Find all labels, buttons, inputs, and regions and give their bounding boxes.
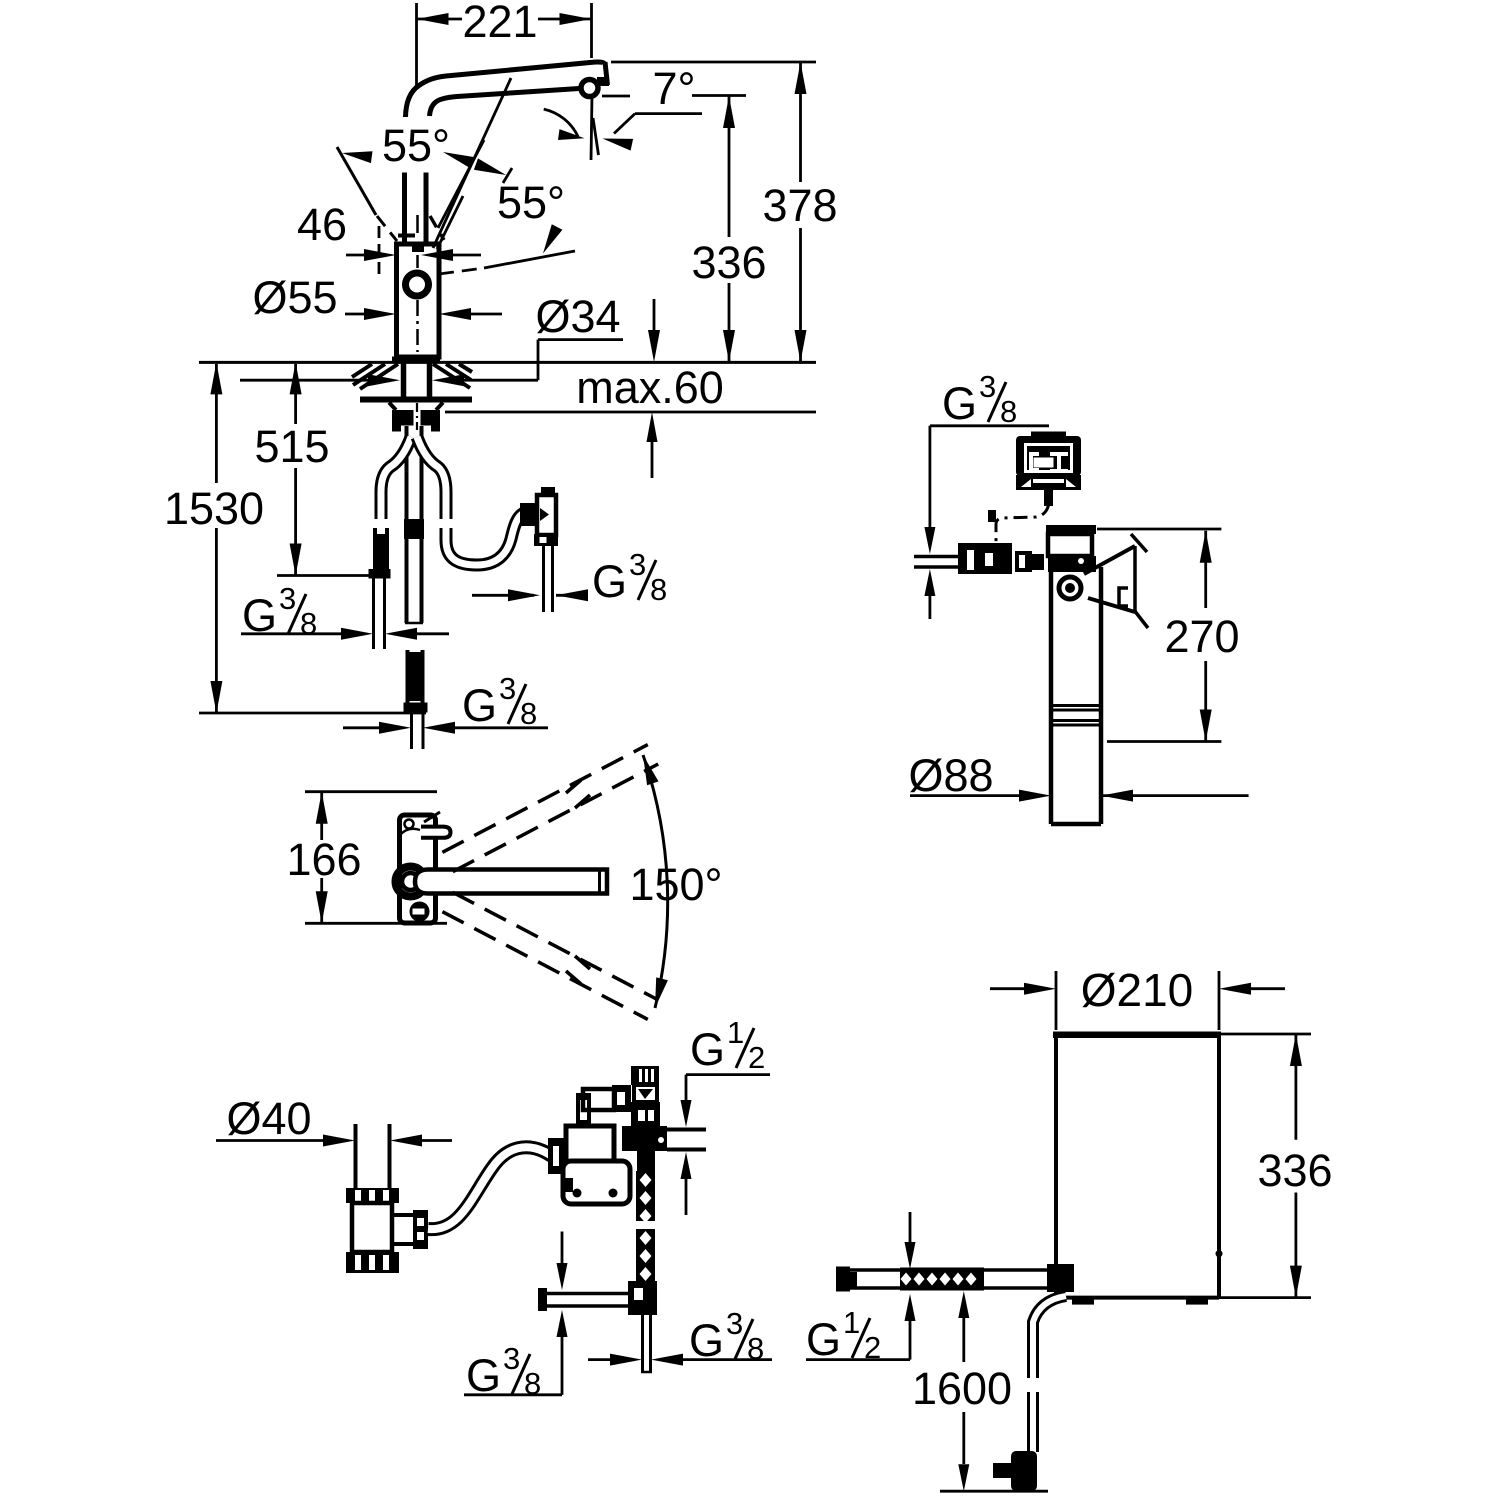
angle 7 deg tilted axis line: [593, 118, 599, 155]
G12 boiler up arrow: [905, 1294, 916, 1321]
dimension 270 line: [1204, 531, 1207, 608]
hatching left 3: [352, 364, 372, 377]
dim 336F bottom ext: [1219, 1296, 1311, 1299]
angle 55 bowtie tail tick: [503, 168, 512, 183]
dimension dia55 line: [345, 313, 366, 316]
mounting plate screw right: [609, 1189, 618, 1198]
dimension 336F line: [1295, 1034, 1298, 1140]
bottom supply tube: [410, 713, 413, 750]
faucet body ring: [406, 273, 429, 296]
dimension 378 line: [799, 62, 802, 182]
dimension G38 bottom line: [343, 726, 381, 729]
drain hose: [428, 1147, 552, 1229]
svg-text:G: G: [690, 1024, 725, 1075]
angle 7 deg leader line: [635, 112, 702, 115]
check valve arrow symbol: [540, 508, 549, 521]
trap side outlet: [392, 1215, 418, 1244]
dimension dia55 left arrow: [364, 308, 396, 320]
tank foot left: [1072, 1298, 1094, 1305]
angle 55 right dashes: [430, 216, 444, 240]
filter bracket arm end: [1133, 546, 1137, 612]
dimension G38 bottom arrowL: [379, 722, 411, 734]
lower center pipe fill: [410, 652, 421, 701]
G12 valve down stem: [685, 1075, 688, 1102]
label max60 up arrow: [651, 440, 654, 478]
swivel lower dashed line B: [442, 912, 647, 1020]
tank foot right: [1186, 1298, 1208, 1305]
angle 55 second leg: [438, 140, 484, 228]
svg-text:378: 378: [762, 180, 837, 231]
inlet left fitting: [836, 1267, 850, 1292]
supply center pipe joint: [404, 519, 424, 539]
braid connector block: [628, 1281, 657, 1315]
angle 55 second tilted spout line: [484, 251, 575, 268]
angle 55 first left arrow: [342, 151, 373, 163]
dimension G38 right arrowL: [508, 589, 540, 601]
swivel upper dashed line A: [453, 764, 658, 872]
G38 filter down arrow: [924, 527, 935, 554]
G38 stub underline: [464, 1393, 562, 1396]
dimension 1530 top arrow: [210, 362, 222, 394]
thermostat cap: [631, 1066, 659, 1085]
dimension 46 left arrow: [364, 249, 396, 261]
check valve coupling: [520, 503, 537, 526]
lower supply tube end: [641, 1371, 652, 1374]
filter display top bump: [1031, 432, 1066, 439]
svg-text:46: 46: [297, 199, 347, 250]
faucet body top detail: [412, 244, 424, 252]
dimension G38 left line: [241, 632, 343, 635]
dimension G38 lr arrowL: [610, 1354, 642, 1366]
tank right side: [1217, 1034, 1221, 1298]
swivel arc bottom arrow: [655, 977, 668, 1008]
dimension 336F top arrow: [1290, 1034, 1302, 1066]
filter head cap: [1046, 525, 1096, 534]
check valve body: [537, 495, 556, 535]
dimension 1600 top arrow: [958, 1291, 969, 1318]
left supply tube: [372, 578, 375, 649]
aerator housing: [581, 80, 598, 97]
dimension dia88 left arrow: [1019, 790, 1051, 802]
thermostat tee: [622, 1126, 667, 1151]
dimension dia88 line: [910, 794, 1021, 797]
dimension 221 line: [417, 18, 463, 21]
dimension 221 left arrow: [417, 13, 449, 25]
svg-text:336: 336: [691, 237, 766, 288]
dimension 515 stem: [294, 544, 297, 576]
angle 55 second dashes: [439, 268, 484, 274]
filter head band: [1048, 556, 1096, 572]
swivel upper dashed line B: [442, 745, 647, 853]
left hose connector: [373, 528, 377, 570]
filter bracket dot: [1065, 583, 1075, 593]
pump block: [566, 1126, 614, 1164]
dimension dia40 left arrow: [323, 1135, 355, 1147]
dimension 270 bottom arrow: [1200, 710, 1212, 742]
dimension dia210 left arrow: [1024, 983, 1056, 995]
filter bracket circle: [1059, 577, 1081, 599]
filter display I glyph: [1050, 452, 1068, 456]
dimension 336 top arrow: [723, 96, 735, 128]
braided hose lower: [636, 1229, 655, 1281]
top view pivot inner: [402, 873, 419, 890]
counter bottom line: [445, 411, 816, 414]
dimension dia55 right arrow: [439, 308, 471, 320]
pump elbow arm: [583, 1089, 614, 1110]
trap hose nut: [413, 1210, 428, 1249]
top view lever tip mark: [424, 812, 440, 822]
thermostat body: [631, 1102, 660, 1126]
hatching left 1: [360, 364, 398, 389]
G38 filter underline: [930, 424, 1049, 427]
filter bracket wall tick bottom: [1134, 610, 1148, 628]
filter bracket arm bottom: [1088, 598, 1135, 612]
left hose: [381, 437, 411, 519]
dimension 336F bottom arrow: [1290, 1266, 1302, 1298]
hatching right 2: [446, 364, 471, 380]
G12 boiler vertical: [909, 1320, 912, 1360]
dimension dia210 right arrow: [1219, 983, 1251, 995]
angle 55 bowtie left arrow: [443, 152, 475, 169]
angle 7 deg arc left: [544, 109, 578, 136]
label 55 deg first halo: [373, 120, 463, 168]
svg-text:3: 3: [499, 671, 516, 706]
G12 boiler down arrow: [909, 1212, 912, 1243]
dimension 166 top arrow: [316, 792, 328, 824]
trap top nut: [346, 1188, 399, 1203]
filter inlet pipe: [914, 555, 960, 559]
G12 valve down arrow: [681, 1100, 692, 1127]
wire dimension 221 right extension line: [590, 3, 593, 58]
tank bottom: [1056, 1296, 1219, 1300]
filter cartridge right: [1099, 567, 1104, 824]
top view spout end cap: [598, 871, 601, 892]
trap tailpiece: [354, 1124, 358, 1188]
filter display screen rect: [1034, 458, 1054, 468]
svg-text:Ø34: Ø34: [535, 291, 620, 342]
dimension 378 top arrow: [795, 62, 807, 94]
dimension 46 line: [346, 254, 366, 257]
G38 stub up arrow: [557, 1310, 568, 1337]
supply center pipe: [405, 426, 409, 623]
svg-text:3: 3: [979, 369, 996, 404]
pump elbow coupling: [612, 1085, 631, 1112]
lower center pipe: [406, 650, 410, 703]
check valve tube: [542, 546, 545, 612]
top view body outline: [400, 815, 436, 923]
filter display inset ring: [1026, 445, 1072, 472]
dimension G38 left arrowR: [385, 628, 417, 640]
hatching right 3: [459, 364, 472, 372]
swivel arc 150: [643, 755, 668, 1008]
outlet pipe right: [667, 1128, 706, 1132]
dimension 515 bottom arrow: [290, 544, 302, 576]
svg-text:3: 3: [279, 581, 296, 616]
filter bracket clip: [1119, 588, 1128, 606]
swivel upper tick marks: [566, 780, 581, 793]
dimension 1600 bottom arrow: [958, 1464, 969, 1491]
dimension 270 bottom ext: [1107, 740, 1221, 743]
right hose: [417, 437, 446, 519]
svg-text:Ø55: Ø55: [252, 272, 337, 323]
svg-text:8: 8: [650, 572, 667, 607]
lever left line: [402, 173, 407, 242]
filter display bracket glyph: [1029, 452, 1039, 456]
svg-text:8: 8: [1000, 394, 1017, 429]
svg-text:G: G: [806, 1314, 841, 1365]
svg-text:1600: 1600: [912, 1363, 1012, 1414]
filter display outer: [1016, 436, 1081, 476]
dimension G38 lr arrowR: [651, 1354, 683, 1366]
stub pipe left fitting: [538, 1288, 547, 1311]
dimension G38 right arrowR: [556, 589, 588, 601]
dimension 378 bottom arrow: [795, 330, 807, 362]
G12 boiler underline: [806, 1358, 910, 1361]
right hose lower: [446, 513, 524, 565]
hatching right 1: [433, 364, 470, 388]
inlet braid section: [900, 1268, 984, 1291]
angle 55 first right tilted lever line: [433, 78, 511, 248]
filter bracket wall tick top: [1131, 534, 1147, 552]
lower pipe connector: [404, 703, 428, 713]
pump elbow vertical: [576, 1093, 591, 1126]
filter head body: [1048, 534, 1092, 556]
swivel lower dashed line A: [453, 892, 658, 1000]
shank right line: [427, 363, 433, 397]
svg-text:3: 3: [726, 1306, 743, 1341]
svg-text:max.60: max.60: [576, 362, 724, 413]
dimension 1600 bottom ext: [940, 1490, 1048, 1493]
lever pivot tick: [398, 234, 415, 238]
filter head white dot: [1078, 558, 1084, 564]
filter cartridge bottom: [1051, 822, 1101, 827]
svg-text:55°: 55°: [497, 177, 565, 228]
mounting nut slot: [414, 410, 421, 426]
angle 55 second arc arrow: [543, 224, 562, 253]
svg-text:8: 8: [300, 606, 317, 641]
dia210 right extension: [1218, 971, 1221, 1030]
svg-text:1: 1: [843, 1305, 860, 1340]
dimension 46 dashed extension: [378, 226, 381, 274]
svg-text:Ø40: Ø40: [226, 1093, 311, 1144]
braided hose upper: [636, 1171, 655, 1221]
svg-text:7°: 7°: [652, 63, 695, 114]
filter bracket arm top: [1084, 546, 1135, 574]
inlet tank connector: [1047, 1264, 1074, 1292]
dimension 1530 stem: [215, 680, 218, 713]
dimension dia34 right arrow: [432, 374, 464, 386]
G38 filter up arrow: [924, 569, 935, 596]
mounting plate screw left: [573, 1189, 582, 1198]
filter cartridge left: [1049, 567, 1054, 824]
mounting plate corner: [563, 1178, 573, 1192]
filter cartridge ring 2: [1051, 719, 1101, 722]
svg-text:1530: 1530: [164, 483, 264, 534]
escutcheon neck left: [389, 403, 396, 411]
mounting plate: [563, 1161, 630, 1204]
filter display base band: [1016, 475, 1081, 490]
svg-text:336: 336: [1257, 1145, 1332, 1196]
top view spout bar: [415, 870, 607, 894]
power plug prong: [993, 1463, 1011, 1478]
dimension G38 left arrowL: [341, 628, 373, 640]
dimension 336 line: [728, 96, 731, 237]
dimension 1530 bottom arrow: [210, 681, 222, 713]
thermostat collar: [634, 1085, 657, 1102]
supply center pipe end: [405, 622, 423, 625]
dimension 515 line: [294, 364, 297, 424]
svg-text:150°: 150°: [629, 859, 722, 910]
dimension dia40 line: [216, 1139, 325, 1142]
wire dimension 221 left extension line: [415, 3, 418, 87]
spout outer edge: [406, 62, 605, 117]
filter display base cuts: [1021, 479, 1031, 487]
svg-text:515: 515: [254, 421, 329, 472]
left hose fitting: [369, 569, 391, 579]
filter cartridge ring 1: [1051, 704, 1101, 707]
dia34 leader underline: [538, 338, 623, 341]
label 7 deg underline right: [692, 94, 746, 97]
label 7 deg underline left: [602, 95, 630, 98]
G12 valve up arrow: [681, 1152, 692, 1179]
dimension 1600 line: [962, 1318, 965, 1362]
G38 stub down arrow: [561, 1232, 564, 1265]
filter inlet tee: [958, 543, 1012, 574]
filter sensor cable: [996, 503, 1049, 546]
top reference line from spout: [611, 61, 816, 64]
stub pipe: [547, 1292, 628, 1296]
dimension 46 right arrow: [421, 249, 453, 261]
dim 336F top ext: [1221, 1033, 1311, 1036]
swivel lower tick marks: [566, 971, 581, 984]
dimension G38 right line: [472, 594, 534, 597]
dimension 166 bottom arrow: [316, 891, 328, 923]
trap bottom nut: [346, 1252, 399, 1273]
dimension dia40 right arrow: [390, 1135, 422, 1147]
filter coupling 1: [1015, 551, 1032, 572]
lever right line: [424, 173, 429, 242]
mounting nut: [392, 410, 440, 426]
lower supply tube: [641, 1315, 644, 1372]
dim 166 bottom extension line: [305, 922, 447, 925]
escutcheon plate: [360, 397, 472, 403]
inlet hose lines: [850, 1268, 1056, 1272]
mounting nut right tab: [431, 426, 440, 432]
svg-text:G: G: [942, 378, 977, 429]
G12 valve underline: [686, 1073, 770, 1076]
dimension dia88 right arrow: [1101, 790, 1133, 802]
label max60 down arrow: [653, 299, 656, 340]
swivel arc top arrow: [643, 755, 659, 785]
svg-text:55°: 55°: [382, 120, 450, 171]
dimension 166 line: [320, 792, 323, 840]
dimension 1530 plane line: [199, 712, 426, 715]
tank left side: [1054, 1034, 1058, 1298]
dimension 515 plane line: [277, 574, 371, 577]
dimension dia34 line: [240, 379, 370, 382]
power cord upper: [1033, 1296, 1066, 1378]
pump coupling: [548, 1138, 566, 1174]
dimension dia34 left arrow: [368, 374, 400, 386]
dia210 left extension: [1055, 971, 1058, 1030]
escutcheon neck right: [436, 403, 443, 411]
hatching left 2: [353, 364, 385, 385]
G38 stub vertical: [561, 1336, 564, 1395]
top view body tab: [421, 827, 451, 838]
dimension 336 bottom arrow: [723, 330, 735, 362]
braided hose top: [637, 1151, 655, 1171]
body bottom flange: [392, 357, 440, 364]
tank top: [1053, 1032, 1221, 1039]
G38 filter vertical: [929, 426, 932, 530]
body centerline dash: [416, 215, 419, 233]
inlet braid diamonds: [901, 1273, 912, 1286]
dimension 270 top arrow: [1200, 531, 1212, 563]
svg-text:G: G: [592, 556, 627, 607]
svg-text:Ø88: Ø88: [908, 750, 993, 801]
power plug body: [1011, 1451, 1037, 1491]
trap body: [352, 1203, 392, 1252]
angle 55 first left dashes: [377, 216, 397, 241]
mounting nut centerline: [416, 403, 418, 430]
svg-text:1: 1: [727, 1015, 744, 1050]
filter inlet tee top stub: [988, 510, 996, 522]
thermostat tee dot: [658, 1137, 664, 1143]
tank side dot: [1216, 1250, 1223, 1257]
angle 7 deg vertical axis line: [591, 95, 592, 160]
dimension 221 right arrow: [560, 13, 592, 25]
dimension 1530 line: [215, 364, 218, 483]
faucet body outline: [397, 244, 440, 357]
svg-text:3: 3: [503, 1341, 520, 1376]
angle 7 deg arc right: [603, 139, 634, 151]
dim 166 top extension line: [305, 790, 437, 793]
dimension dia210 line: [990, 987, 1026, 990]
top view pivot ring: [396, 867, 426, 897]
svg-text:G: G: [466, 1350, 501, 1401]
angle 55 first left tilted lever line: [337, 147, 376, 215]
svg-text:8: 8: [520, 696, 537, 731]
dimension G38 bottom arrowR: [423, 722, 455, 734]
dimension G38 lr line: [588, 1358, 612, 1361]
spout inner edge: [430, 89, 580, 117]
braided hose diamonds: [640, 1173, 652, 1187]
spout right end edge: [605, 62, 608, 85]
dia34 leader vertical: [537, 340, 540, 381]
top view bottom circle: [410, 902, 430, 922]
check valve top stub: [541, 487, 555, 496]
svg-text:2: 2: [748, 1040, 765, 1075]
svg-text:270: 270: [1164, 611, 1239, 662]
dimension 515 top arrow: [290, 362, 302, 394]
check valve fitting: [534, 534, 558, 546]
shank left line: [401, 363, 407, 397]
svg-text:3: 3: [629, 547, 646, 582]
power cord lower: [1027, 1392, 1039, 1452]
svg-text:G: G: [462, 680, 497, 731]
mounting nut left tab: [392, 426, 401, 432]
svg-text:166: 166: [286, 834, 361, 885]
filter coupling 2: [1032, 554, 1044, 570]
dimension 270 top ext: [1097, 528, 1221, 531]
svg-text:221: 221: [462, 0, 537, 47]
svg-text:Ø210: Ø210: [1081, 964, 1194, 1016]
filter display stem: [1044, 490, 1053, 506]
counter top line: [199, 361, 816, 364]
angle 55 bowtie right arrow: [474, 158, 506, 175]
